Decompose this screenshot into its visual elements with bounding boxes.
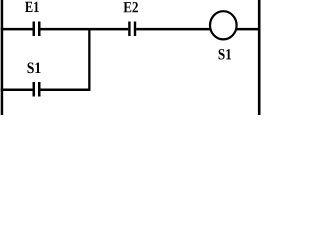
contact S1 (seal-in) (33, 82, 41, 97)
contact E1 (33, 22, 41, 37)
wire: contact S1 to vertical branch (41, 89, 91, 92)
contact E2 (128, 22, 136, 37)
left power rail (1, 0, 4, 115)
label S1 (coil) (219, 49, 232, 59)
wire: left rail to contact E1 (top rung) (1, 28, 33, 31)
label S1 (contact) (28, 63, 41, 74)
coil S1 (circle) (210, 11, 237, 39)
right power rail (258, 0, 261, 115)
wire: left rail to contact S1 (bottom rung) (1, 89, 33, 92)
label E2 (124, 2, 138, 12)
wire: contact E1 to contact E2 (through junction) (41, 28, 129, 31)
wire: contact E2 to coil S1 (136, 28, 210, 31)
wire: vertical branch joining bottom rung to top rung (88, 28, 90, 91)
wire: coil S1 to right rail (237, 28, 258, 31)
label E1 (25, 2, 39, 12)
